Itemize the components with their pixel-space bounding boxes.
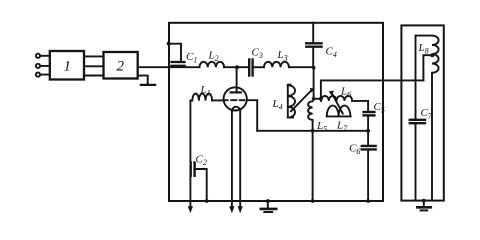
svg-text:C1: C1 <box>186 51 197 65</box>
arrow cathode leg 1 <box>229 206 234 213</box>
svg-text:C7: C7 <box>421 107 433 121</box>
inductor L2 <box>200 50 238 68</box>
node C4 junction <box>312 66 316 70</box>
node L5 top <box>312 97 316 101</box>
shield box (main enclosure) <box>169 23 383 201</box>
wire to C3 <box>237 66 249 68</box>
capacitor C7 <box>410 107 433 201</box>
capacitor C2 <box>191 154 207 202</box>
capacitor C5 <box>364 101 385 131</box>
wavemeter box <box>401 25 443 200</box>
inductor L1 <box>190 84 212 101</box>
node C6 at bus <box>366 199 370 203</box>
node C1 tap on left edge <box>167 42 171 46</box>
wire L1 left lead down <box>189 101 191 209</box>
svg-text:C2: C2 <box>196 154 207 168</box>
wire down from C4 node <box>313 68 315 99</box>
node C2 to bottom bus <box>205 199 209 203</box>
arrow bottom left <box>188 206 193 213</box>
wire C3 to L3 <box>253 66 264 68</box>
ground under wavemeter box <box>417 199 431 211</box>
svg-text:L6: L6 <box>340 86 351 100</box>
node L8 tap <box>430 53 434 57</box>
wire L8 tap lead <box>423 55 432 80</box>
wire grid right lead <box>247 100 257 131</box>
wire L5 bottom down to bus <box>312 120 314 201</box>
wire anode lead <box>236 67 238 92</box>
svg-text:L8: L8 <box>418 42 429 56</box>
arrow variable coupling L7-L6 <box>329 91 343 114</box>
inductor L6 <box>321 86 368 101</box>
triode V (tube) <box>223 87 247 110</box>
capacitor C6 <box>349 131 376 201</box>
arrow variable coupling L4-L5 <box>291 88 315 112</box>
block 1 <box>50 51 84 80</box>
wire node to riser <box>314 80 321 98</box>
inductor L7 <box>327 106 351 133</box>
svg-text:L1: L1 <box>200 84 211 98</box>
arrow cathode leg 2 <box>238 206 243 213</box>
wire block2 output to shield box <box>138 66 200 68</box>
svg-text:C4: C4 <box>326 46 337 60</box>
inductor L5 <box>308 101 327 133</box>
capacitor C1 <box>169 44 198 66</box>
inductor L3 <box>264 49 289 67</box>
svg-text:C3: C3 <box>252 47 263 61</box>
svg-text:C6: C6 <box>349 143 360 157</box>
capacitor C3 <box>249 47 263 76</box>
node L5 line at bus <box>311 199 315 203</box>
svg-text:L4: L4 <box>272 98 283 112</box>
svg-text:L3: L3 <box>277 49 288 63</box>
wire L3 to C4 node <box>289 66 314 68</box>
wire cathode legs <box>232 111 240 209</box>
wire grid left lead <box>212 99 224 101</box>
wire grid return line <box>257 130 368 132</box>
ground on bottom bus <box>261 199 276 212</box>
svg-text:1: 1 <box>64 59 72 75</box>
wires block1 to block2 <box>84 56 104 75</box>
node B riser <box>319 97 323 101</box>
node grid line junction <box>311 129 315 133</box>
inductor L4 <box>272 85 295 118</box>
block 2 <box>104 52 138 79</box>
wire line to L8 tap <box>321 79 424 81</box>
capacitor C4 <box>306 23 337 67</box>
ground stub at block 2 <box>138 76 156 85</box>
svg-text:L7: L7 <box>336 120 348 134</box>
inductor L8 <box>416 36 439 201</box>
svg-text:L2: L2 <box>208 50 219 64</box>
node anode junction <box>235 65 239 69</box>
input terminal circles <box>36 54 50 77</box>
svg-text:2: 2 <box>117 59 125 75</box>
node C5/C6 junction <box>366 129 370 133</box>
